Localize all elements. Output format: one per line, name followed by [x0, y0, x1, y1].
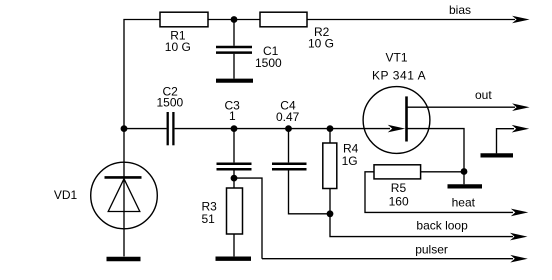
- wire node C3 to node C4: [234, 128, 289, 130]
- svg-text:VD1: VD1: [54, 188, 78, 202]
- capacitor C3: [217, 164, 252, 170]
- svg-text:1500: 1500: [255, 56, 282, 70]
- svg-text:back loop: back loop: [416, 219, 468, 233]
- wire R4 bottom lead: [329, 189, 331, 214]
- ground top right: [481, 153, 514, 157]
- wire C1 bottom lead: [233, 54, 235, 79]
- wire top rail left segment: [124, 20, 160, 129]
- wire R5 right lead to source node: [421, 171, 464, 173]
- wire node C4 to node R4: [289, 128, 331, 130]
- wire C4 top lead: [288, 129, 290, 163]
- svg-text:VT1: VT1: [386, 51, 408, 65]
- junction node C3: [231, 125, 238, 132]
- transistor VT1 body: [363, 87, 430, 154]
- junction node below C3: [231, 175, 238, 182]
- ground stub arrowhead: [512, 125, 530, 133]
- wire C1 top lead: [233, 20, 235, 46]
- resistor R5: [374, 165, 421, 179]
- junction node C4: [285, 125, 292, 132]
- resistor R3: [227, 188, 243, 234]
- ground under R3: [216, 257, 252, 261]
- ground under source node: [448, 184, 483, 188]
- wire gate lead of VT1: [330, 128, 390, 130]
- wire VD1 vertical through body: [123, 163, 125, 257]
- svg-text:1G: 1G: [342, 154, 358, 168]
- net heat arrowhead: [511, 209, 529, 217]
- wire R1 to R2: [208, 19, 260, 21]
- svg-text:bias: bias: [449, 3, 471, 17]
- wire node R4 bottom to back loop: [330, 214, 513, 237]
- svg-text:R5: R5: [391, 181, 407, 195]
- svg-text:160: 160: [389, 194, 409, 208]
- wire source of VT1: [408, 129, 465, 172]
- wire C3 top lead: [233, 129, 235, 163]
- junction left rail node: [121, 125, 128, 132]
- gate arrowhead of VT1: [388, 125, 406, 133]
- junction node R4: [327, 125, 334, 132]
- wire drain of VT1 to out arrow: [408, 106, 516, 108]
- wire VD1 top lead: [123, 129, 125, 163]
- svg-text:10 G: 10 G: [165, 40, 191, 54]
- svg-text:51: 51: [202, 212, 216, 226]
- svg-text:1: 1: [229, 109, 236, 123]
- svg-text:pulser: pulser: [415, 242, 448, 256]
- resistor R4: [323, 143, 337, 189]
- ground under C1: [216, 79, 253, 83]
- wire R3 bottom lead: [233, 234, 235, 256]
- wire C4 bottom lead to node R4 bottom: [289, 170, 331, 213]
- wire ground stub arrow top right: [497, 129, 515, 154]
- wire node below C3 to pulser drop: [234, 178, 262, 259]
- wire C2 to node C3: [175, 128, 234, 130]
- wire left rail to C2: [124, 128, 167, 130]
- svg-text:out: out: [475, 88, 492, 102]
- wire R2 to bias arrow: [307, 19, 515, 21]
- net pulser arrowhead: [510, 255, 528, 263]
- svg-text:10 G: 10 G: [308, 37, 334, 51]
- net bias arrowhead: [512, 16, 530, 24]
- wire R4 top lead: [329, 129, 331, 143]
- junction source node: [461, 168, 468, 175]
- junction top node: [231, 16, 238, 23]
- wire source node to ground: [463, 172, 465, 185]
- net pulser wire: [262, 258, 513, 260]
- resistor R1: [160, 12, 208, 27]
- resistor R2: [260, 12, 307, 27]
- photodiode VD1 body: [91, 162, 158, 229]
- svg-text:KP 341 A: KP 341 A: [372, 68, 426, 82]
- capacitor C4: [272, 164, 307, 170]
- svg-text:heat: heat: [452, 196, 476, 210]
- junction node R4 bottom: [327, 210, 334, 217]
- wire C3 bottom lead: [233, 170, 235, 188]
- ground under VD1: [107, 257, 141, 261]
- capacitor C1: [216, 47, 252, 53]
- VD1 cathode bar: [105, 176, 142, 179]
- net back loop arrowhead: [510, 233, 528, 241]
- svg-text:0.47: 0.47: [276, 110, 300, 124]
- svg-text:1500: 1500: [157, 96, 184, 110]
- wire R5 left lead to heat: [365, 172, 513, 213]
- transistor VT1 channel bar: [405, 96, 408, 141]
- VD1 anode triangle: [108, 179, 140, 212]
- capacitor C2: [168, 112, 174, 145]
- net out arrowhead: [512, 103, 530, 111]
